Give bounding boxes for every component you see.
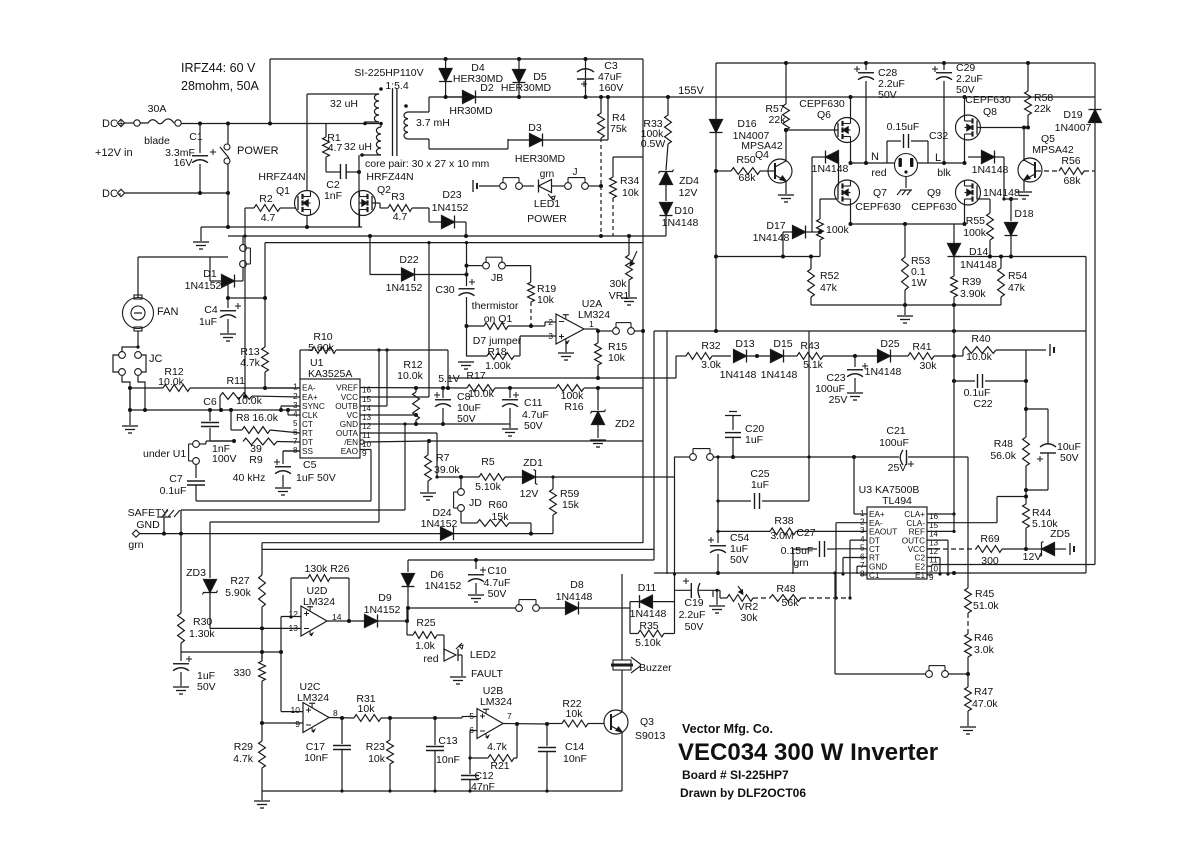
wire Q6 gate	[786, 129, 838, 131]
capacitor C4 1uF	[220, 310, 236, 312]
svg-text:10k: 10k	[368, 753, 386, 765]
capacitor C10 4.7uF 50V	[475, 560, 477, 569]
resistor R35 5.10k	[638, 630, 664, 637]
svg-text:HRFZ44N: HRFZ44N	[366, 171, 413, 183]
svg-text:R30: R30	[193, 616, 212, 628]
winding primary lower 32uH	[380, 124, 382, 128]
outlet socket	[895, 154, 918, 177]
wire pin8 SS	[283, 450, 300, 452]
svg-text:50V: 50V	[488, 588, 507, 600]
wire 331 bus	[654, 330, 1086, 332]
svg-text:C4: C4	[204, 304, 218, 316]
svg-text:4.7: 4.7	[393, 211, 408, 223]
resistor R50 68k	[731, 168, 760, 175]
resistor R12 10.0k	[130, 387, 163, 389]
svg-text:1N4148: 1N4148	[556, 591, 593, 603]
diode D10 1N4148	[660, 203, 673, 216]
wire right column 1026	[1025, 350, 1027, 437]
resistor R1 4.7	[323, 137, 330, 157]
svg-text:25V: 25V	[829, 394, 848, 406]
svg-text:8: 8	[333, 708, 338, 718]
svg-text:EA-: EA-	[869, 519, 883, 528]
ground U2A	[565, 341, 567, 352]
svg-text:Q6: Q6	[817, 109, 831, 121]
svg-text:CEPF630: CEPF630	[855, 201, 901, 213]
svg-text:GND: GND	[136, 519, 160, 531]
svg-text:VR1: VR1	[609, 290, 630, 302]
svg-text:EAO: EAO	[341, 447, 358, 456]
svg-text:R11: R11	[227, 375, 246, 387]
wire outlet N	[851, 162, 895, 164]
switch D8 line	[516, 605, 523, 612]
resistor R17 10.0k	[467, 385, 495, 392]
svg-text:C1: C1	[189, 131, 203, 143]
wire U2D out	[327, 620, 364, 622]
capacitor C14 10nF	[546, 724, 548, 746]
resistor R25 1.0k	[413, 632, 437, 639]
svg-text:D10: D10	[674, 205, 693, 217]
svg-text:1N4148: 1N4148	[812, 163, 849, 175]
svg-text:7: 7	[507, 711, 512, 721]
svg-text:10k: 10k	[622, 187, 640, 199]
wire Q1 drain	[306, 94, 308, 191]
svg-text:1: 1	[860, 509, 865, 518]
svg-text:30k: 30k	[610, 278, 628, 290]
capacitor C23 100uF 25V	[854, 356, 856, 367]
svg-text:C13: C13	[438, 735, 457, 747]
svg-text:LM324: LM324	[578, 309, 610, 321]
wire bundle v2	[653, 331, 655, 560]
wire LED chain	[479, 185, 499, 187]
svg-text:R50: R50	[736, 154, 755, 166]
svg-text:10: 10	[291, 705, 301, 715]
svg-text:0.1uF: 0.1uF	[160, 485, 187, 497]
svg-text:0.15uF: 0.15uF	[781, 545, 814, 557]
svg-text:TL494: TL494	[882, 495, 912, 507]
wire U2A out	[584, 328, 598, 330]
wire bridge bottom	[851, 223, 965, 225]
svg-text:100V: 100V	[212, 453, 237, 465]
wire pin1 EA-	[265, 387, 300, 389]
svg-text:0.15uF: 0.15uF	[887, 121, 920, 133]
wire U2B out	[503, 723, 547, 726]
svg-text:C22: C22	[973, 398, 992, 410]
svg-text:7: 7	[860, 561, 865, 570]
wire U2C in-	[262, 722, 303, 724]
wire right box edge	[1085, 257, 1087, 574]
transistor Q1 HRFZ44N	[295, 191, 320, 216]
wire outlet L	[918, 162, 965, 164]
ground bottom rail	[261, 791, 263, 800]
svg-text:R60: R60	[488, 499, 507, 511]
svg-text:3.0k: 3.0k	[974, 644, 995, 656]
svg-text:LM324: LM324	[480, 696, 512, 708]
svg-text:D19: D19	[1063, 109, 1082, 121]
diode D2 HR30MD	[429, 96, 462, 98]
svg-text:DT: DT	[869, 536, 880, 545]
svg-text:5.10k: 5.10k	[475, 481, 501, 493]
svg-text:1.0k: 1.0k	[415, 640, 436, 652]
wire Q2 source	[359, 216, 361, 228]
svg-text:R17: R17	[466, 370, 485, 382]
svg-text:D8: D8	[570, 579, 584, 591]
wire 155V rail	[446, 96, 1095, 98]
svg-text:under U1: under U1	[143, 448, 186, 460]
svg-text:R34: R34	[620, 175, 639, 187]
svg-text:2.2uF: 2.2uF	[679, 609, 706, 621]
svg-text:4.7k: 4.7k	[233, 753, 254, 765]
svg-text:R56: R56	[1061, 155, 1080, 167]
svg-text:1.30k: 1.30k	[189, 628, 215, 640]
svg-text:1N4148: 1N4148	[753, 232, 790, 244]
svg-text:1N4148: 1N4148	[983, 187, 1020, 199]
svg-text:1W: 1W	[911, 277, 927, 289]
resistor R48 56.0k	[1023, 437, 1030, 466]
svg-text:R39: R39	[962, 276, 981, 288]
svg-text:D11: D11	[638, 582, 657, 594]
svg-text:13: 13	[289, 623, 299, 633]
wire U2C out	[329, 717, 354, 720]
svg-text:1N4148: 1N4148	[662, 217, 699, 229]
wire U3 pin10 E2 to right	[927, 565, 932, 567]
svg-text:5: 5	[293, 419, 298, 428]
wire U3 pin1	[854, 513, 867, 515]
svg-text:1uF: 1uF	[745, 434, 763, 446]
svg-text:22k: 22k	[769, 114, 787, 126]
resistor R44 5.10k	[1023, 504, 1030, 528]
svg-text:GND: GND	[340, 420, 358, 429]
svg-text:2: 2	[548, 317, 553, 327]
ground C19	[716, 590, 718, 605]
svg-text:C6: C6	[203, 396, 217, 408]
svg-text:1N4148: 1N4148	[720, 369, 757, 381]
wire safety line 510	[181, 509, 405, 511]
svg-text:GND: GND	[869, 562, 887, 571]
svg-text:4.7k: 4.7k	[487, 741, 508, 753]
svg-text:1nF: 1nF	[324, 190, 342, 202]
diode D11 1N4148 R35	[629, 602, 631, 634]
svg-text:D9: D9	[378, 592, 392, 604]
svg-text:SS: SS	[302, 447, 313, 456]
svg-text:CLA+: CLA+	[904, 510, 925, 519]
svg-text:28mohm, 50A: 28mohm, 50A	[181, 79, 259, 93]
svg-text:FAULT: FAULT	[471, 668, 503, 680]
resistor R41 30k	[908, 353, 934, 360]
resistor R58 22k	[1027, 63, 1029, 91]
svg-text:4.7: 4.7	[261, 212, 276, 224]
zener ZD2	[597, 388, 599, 410]
svg-text:C14: C14	[565, 741, 584, 753]
svg-text:12V: 12V	[679, 187, 698, 199]
svg-text:1N4148: 1N4148	[865, 366, 902, 378]
svg-text:KA3525A: KA3525A	[308, 368, 352, 380]
diode D5 HER30MD	[518, 59, 520, 70]
wire U3 pin9 E1 to right	[927, 574, 932, 576]
wire 542 line to R27	[262, 542, 643, 544]
svg-text:SI-225HP110V: SI-225HP110V	[354, 67, 423, 79]
capacitor 10uF 50V	[1026, 408, 1048, 410]
transistor Q8 CEPF630	[956, 115, 981, 140]
svg-text:FAN: FAN	[157, 306, 178, 318]
wire U3 pin11 C2	[927, 557, 940, 559]
capacitor C11 4.7uF 50V	[509, 388, 511, 398]
wire Q8 gate	[977, 127, 1028, 129]
wire bottom rail	[262, 790, 622, 792]
winding primary upper 32uH	[307, 93, 379, 95]
wire C4 node	[227, 281, 229, 308]
svg-text:30k: 30k	[741, 612, 759, 624]
resistor R32 3.0k	[675, 356, 677, 378]
wire 549 line	[262, 548, 654, 550]
svg-text:R52: R52	[820, 270, 839, 282]
svg-text:3: 3	[860, 526, 865, 535]
wire Q3 emitter	[621, 732, 623, 791]
svg-text:REF: REF	[909, 528, 925, 537]
wire D6 node to switch	[408, 607, 515, 609]
svg-text:VEC034 300 W Inverter: VEC034 300 W Inverter	[678, 739, 938, 766]
svg-text:5.10k: 5.10k	[635, 637, 661, 649]
svg-text:Q7: Q7	[873, 187, 887, 199]
wire right top rail	[716, 62, 1095, 64]
wire fault node	[406, 608, 408, 635]
svg-text:CLK: CLK	[302, 411, 318, 420]
svg-text:D15: D15	[773, 338, 792, 350]
svg-text:5.1V: 5.1V	[438, 373, 460, 385]
wire EAO loop	[196, 500, 371, 502]
svg-text:RT: RT	[302, 429, 313, 438]
svg-text:blade: blade	[144, 135, 170, 147]
svg-text:1N4148: 1N4148	[761, 369, 798, 381]
svg-text:R27: R27	[230, 575, 249, 587]
svg-text:HR30MD: HR30MD	[449, 105, 493, 117]
svg-text:Buzzer: Buzzer	[639, 662, 672, 674]
resistor R45 51.0k	[965, 588, 972, 613]
svg-text:C11: C11	[524, 397, 543, 409]
svg-text:30A: 30A	[148, 103, 167, 115]
wire 305 bus	[811, 304, 1001, 306]
svg-text:Drawn by DLF2OCT06: Drawn by DLF2OCT06	[680, 786, 806, 800]
transformer core	[392, 89, 394, 156]
wire pin10 /EN	[360, 440, 364, 444]
resistor 330	[261, 652, 263, 661]
capacitor C7 0.1uF	[195, 464, 197, 478]
svg-text:8: 8	[860, 570, 865, 579]
svg-text:D22: D22	[399, 254, 418, 266]
svg-text:10nF: 10nF	[304, 752, 328, 764]
resistor R23 10k	[389, 718, 391, 740]
diode D16 1N4007	[710, 120, 723, 133]
svg-text:R45: R45	[975, 588, 994, 600]
wire DC+ rail	[124, 122, 134, 124]
potentiometer VR2 30k	[727, 595, 753, 602]
wire drive line 522	[210, 521, 379, 523]
wire R15 node rail	[448, 377, 676, 379]
transistor Q9 CEPF630	[956, 180, 981, 205]
svg-text:EA+: EA+	[869, 510, 885, 519]
svg-text:0.5W: 0.5W	[641, 138, 666, 150]
svg-text:R29: R29	[234, 741, 253, 753]
wire pin4 CLK	[288, 414, 300, 416]
wire Q1 source	[306, 216, 308, 228]
svg-text:130k R26: 130k R26	[305, 563, 350, 575]
svg-text:100uF: 100uF	[879, 437, 909, 449]
capacitor C5 1uF 50V	[282, 451, 284, 464]
resistor R29 4.7k	[259, 741, 266, 768]
resistor R19 10k	[528, 282, 535, 302]
resistor R33 100k 0.5W	[665, 97, 672, 144]
resistor R53 0.1 1W	[904, 224, 906, 257]
svg-text:Q3: Q3	[640, 716, 654, 728]
svg-text:10.0k: 10.0k	[397, 370, 423, 382]
resistor R27 5.90k	[261, 543, 263, 575]
diode D6 1N4152	[407, 560, 409, 572]
svg-text:JC: JC	[149, 353, 163, 365]
wire U2D in- line	[210, 627, 301, 629]
wire pin15 VCC	[360, 396, 429, 398]
wire U3 pin16 CLA+	[927, 513, 954, 515]
capacitor C21 100uF 25V	[900, 450, 903, 465]
transistor Q7 CEPF630	[835, 180, 860, 205]
wire Q4 collector	[785, 130, 787, 161]
svg-text:155V: 155V	[678, 85, 704, 97]
capacitor C27 0.15uF to CT	[836, 548, 867, 550]
svg-text:D13: D13	[735, 338, 754, 350]
svg-text:DT: DT	[302, 438, 313, 447]
connector pair	[240, 245, 247, 252]
svg-text:1: 1	[293, 382, 298, 391]
svg-text:1N4152: 1N4152	[432, 202, 469, 214]
svg-text:C30: C30	[435, 284, 454, 296]
zener ZD1	[523, 471, 536, 484]
resistor R40 10.0k	[954, 355, 963, 357]
resistor R21 4.7k feedback	[516, 724, 518, 758]
svg-text:32 uH: 32 uH	[330, 98, 358, 110]
wire Q2 drain	[360, 153, 364, 157]
svg-text:25V: 25V	[888, 462, 907, 474]
svg-text:1N4152: 1N4152	[386, 282, 423, 294]
svg-text:51.0k: 51.0k	[973, 600, 999, 612]
svg-text:3.0k: 3.0k	[701, 359, 722, 371]
wire U3 pin14 REF	[927, 530, 954, 532]
svg-text:CLA-: CLA-	[906, 519, 925, 528]
resistor R52 47k	[810, 257, 812, 270]
wire 243 VCC line	[265, 242, 643, 244]
svg-text:D23: D23	[442, 189, 461, 201]
wire pin14 OUTB	[360, 405, 387, 407]
LED LED1 grn	[539, 180, 552, 193]
resistor R57 22k	[785, 63, 787, 104]
svg-text:2: 2	[860, 518, 865, 527]
svg-text:VREF: VREF	[336, 384, 358, 393]
svg-text:1: 1	[589, 319, 594, 329]
svg-text:CEPF630: CEPF630	[911, 201, 957, 213]
fuse F1 30A blade	[134, 120, 140, 126]
svg-text:C2: C2	[915, 554, 926, 563]
svg-text:10k: 10k	[566, 708, 584, 720]
svg-text:15k: 15k	[562, 499, 580, 511]
svg-text:VC: VC	[347, 411, 358, 420]
svg-text:D16: D16	[737, 118, 756, 130]
svg-text:Q8: Q8	[983, 106, 997, 118]
svg-text:OUTC: OUTC	[902, 536, 925, 545]
svg-text:56.0k: 56.0k	[990, 450, 1016, 462]
capacitor C3 47uF 160V	[585, 59, 587, 68]
svg-text:5: 5	[860, 544, 865, 553]
wire 652 node	[181, 651, 281, 653]
svg-text:330: 330	[233, 667, 251, 679]
svg-text:56k: 56k	[782, 597, 800, 609]
svg-text:S9013: S9013	[635, 730, 666, 742]
wire pin11 OUTA	[360, 432, 437, 434]
ground VR2	[725, 590, 727, 592]
svg-text:3.0M: 3.0M	[770, 530, 793, 542]
battery symbol	[472, 180, 474, 192]
svg-text:75k: 75k	[610, 123, 628, 135]
capacitor C12 47nF	[469, 758, 471, 774]
svg-text:LM324: LM324	[297, 692, 329, 704]
svg-text:4.7k: 4.7k	[240, 357, 261, 369]
svg-text:D14: D14	[969, 246, 988, 258]
svg-text:CT: CT	[302, 420, 313, 429]
LED LED2 red FAULT	[443, 635, 445, 655]
svg-text:1uF: 1uF	[199, 316, 217, 328]
svg-text:R5: R5	[481, 456, 495, 468]
resistor R43 5.1k	[797, 353, 823, 360]
wire grn line	[139, 533, 440, 535]
ground R18	[458, 361, 474, 363]
svg-text:R38: R38	[774, 515, 793, 527]
motor FAN	[123, 298, 154, 329]
switch mid wire	[674, 456, 690, 458]
diode D1 1N4152	[210, 280, 221, 282]
svg-text:68k: 68k	[1064, 175, 1082, 187]
svg-text:R2: R2	[259, 193, 273, 205]
diode D23 1N4152	[428, 208, 430, 222]
svg-text:HRFZ44N: HRFZ44N	[258, 171, 305, 183]
svg-text:ZD1: ZD1	[523, 457, 543, 469]
diode D4 HER30MD	[445, 59, 447, 69]
ground Q4	[785, 181, 787, 194]
capacitor C2 1nF	[325, 157, 327, 172]
diode D17 1N4148	[783, 231, 792, 233]
wire fan to JC	[137, 331, 139, 347]
svg-text:R43: R43	[800, 340, 819, 352]
diode D19 1N4007	[1094, 63, 1096, 109]
resistor R2 4.7	[254, 205, 280, 212]
svg-text:R48: R48	[776, 583, 795, 595]
svg-text:50V: 50V	[524, 420, 543, 432]
svg-text:9: 9	[295, 719, 300, 729]
svg-text:1N4148: 1N4148	[972, 164, 1009, 176]
wire Q9 gate net	[977, 198, 990, 200]
diode D9 1N4152	[365, 615, 378, 628]
svg-text:CEPF630: CEPF630	[965, 94, 1011, 106]
resistor R16 100k	[556, 385, 584, 392]
svg-text:1N4152: 1N4152	[425, 580, 462, 592]
svg-text:3.90k: 3.90k	[960, 288, 986, 300]
wire U2B in+	[461, 717, 463, 719]
svg-text:C27: C27	[796, 527, 815, 539]
wire Q7 gate net	[820, 198, 837, 200]
wire +12V bus	[228, 235, 666, 237]
wire bundle v3	[666, 331, 668, 574]
svg-text:1.00k: 1.00k	[485, 360, 511, 372]
svg-text:D17: D17	[766, 220, 785, 232]
svg-text:C7: C7	[169, 473, 183, 485]
switch bottom right	[926, 671, 933, 678]
svg-text:D2: D2	[480, 82, 494, 94]
svg-text:10.0k: 10.0k	[468, 388, 494, 400]
